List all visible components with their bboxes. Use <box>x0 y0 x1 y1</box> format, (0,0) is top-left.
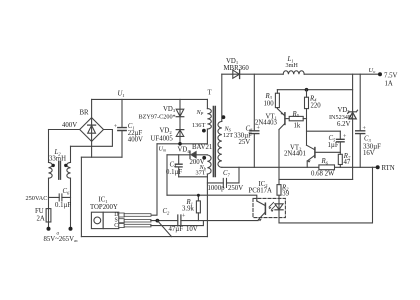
IC2 phototransistor collector <box>257 201 266 206</box>
svg-text:250VAC: 250VAC <box>26 195 48 202</box>
svg-text:33mH: 33mH <box>49 156 66 163</box>
svg-text:400V: 400V <box>128 136 143 143</box>
transformer primary winding Np 136T <box>207 109 211 129</box>
wire: R1 top lead <box>197 195 199 201</box>
IC1 pin S <box>119 219 124 223</box>
wire: VT1 collector vertical <box>278 130 280 180</box>
svg-text:39: 39 <box>282 191 289 198</box>
wire: primary ground horizontal under C1 <box>81 156 122 158</box>
svg-text:0.1µF: 0.1µF <box>55 202 71 209</box>
L2 core lines <box>59 162 61 180</box>
IC2 LED emission arrows <box>269 202 276 209</box>
zener VD5 symbol <box>349 112 356 119</box>
transistor VT1 base lead <box>285 118 289 120</box>
svg-text:1A: 1A <box>385 81 393 88</box>
wire: bridge left arm horizontal 400V <box>49 129 80 131</box>
wire: bridge top vertex to DC+ rail <box>91 99 93 117</box>
capacitor C7 plates <box>223 178 226 187</box>
wire: C6 branch horizontal <box>49 196 71 198</box>
svg-text:+: + <box>114 124 118 130</box>
wire: RTN rail <box>222 166 378 168</box>
capacitor C6 0.1uF plates <box>59 194 62 201</box>
svg-text:136T: 136T <box>192 122 205 129</box>
wire: C pin wire <box>151 221 204 226</box>
wire: R7 leads <box>339 152 341 167</box>
svg-text:BR: BR <box>80 110 90 117</box>
resistor R4 220 <box>305 97 309 108</box>
svg-text:UF4005: UF4005 <box>151 135 174 142</box>
wire: output rail L1 to Uo terminal <box>304 73 380 75</box>
wire: Um bias wire to optocoupler collector <box>167 195 257 201</box>
svg-text:220: 220 <box>311 103 322 110</box>
IC2 phototransistor emitter <box>258 212 265 220</box>
wire: feed line to R3 R4 top <box>277 89 352 91</box>
fuse FU 2A <box>46 209 51 222</box>
wire: bridge bottom vertex to primary ground <box>91 141 93 157</box>
capacitor C1 plates <box>118 128 126 131</box>
wire: bridge right arm to corner <box>71 130 113 147</box>
node: bias winding polarity dot <box>202 156 206 160</box>
wire: drain net horizontal <box>157 143 207 145</box>
resistor R6 0.68 2W <box>319 165 335 170</box>
svg-text:0.68 2W: 0.68 2W <box>311 170 335 177</box>
wire: R3 leads <box>276 90 278 109</box>
transistor VT1 2N4403 emitter <box>277 109 285 116</box>
diode VD2 UF4005 <box>176 129 184 131</box>
svg-text:1µF: 1µF <box>328 142 339 149</box>
wire: Um node left edge down <box>166 155 168 195</box>
wire: bias winding return down to ground rail <box>206 174 208 237</box>
IC2 LED <box>278 195 280 223</box>
node: R1 top junction dot <box>197 194 200 197</box>
svg-text:IN5234B: IN5234B <box>329 114 352 121</box>
svg-text:2N4401: 2N4401 <box>284 150 306 157</box>
svg-text:7.5V: 7.5V <box>384 72 397 79</box>
wire: R4 bottom to C5 top <box>307 130 341 132</box>
node: Uo output terminal dot <box>378 72 382 76</box>
svg-text:3mH: 3mH <box>286 62 299 69</box>
svg-text:TOP200Y: TOP200Y <box>90 204 118 211</box>
optocoupler IC2 PC817A dashed box <box>253 198 285 217</box>
svg-text:47: 47 <box>344 159 351 166</box>
capacitor C5 1uF leads <box>339 131 341 152</box>
node: AC input terminal dots <box>47 227 51 231</box>
svg-text:PC817A: PC817A <box>249 188 273 195</box>
wire: zener line below RTN to feedback node wire <box>352 167 354 179</box>
node: drain junction dot <box>178 142 182 146</box>
IC1 pin C <box>119 224 124 228</box>
svg-text:2N4403: 2N4403 <box>255 119 278 126</box>
svg-text:12T: 12T <box>223 132 233 139</box>
wire: primary ground bottom rail <box>81 236 207 238</box>
transformer core <box>213 107 215 177</box>
transformer secondary winding Ns 12T <box>218 121 222 167</box>
resistor R3 100 <box>275 93 279 107</box>
capacitor C4 plates <box>175 164 182 167</box>
wire: VT2 emitter down to RTN rail <box>306 161 308 167</box>
capacitor C4 0.1uF leads <box>178 155 180 177</box>
wire: fuse to AC terminal <box>48 222 50 229</box>
svg-text:RTN: RTN <box>382 165 395 172</box>
svg-text:85V~265Vac: 85V~265Vac <box>44 236 79 243</box>
wire: left line from C6 junction to fuse <box>48 197 50 208</box>
wire: AC left vertical from bridge left arm down to choke <box>48 130 50 163</box>
node: R4 top junction dot <box>305 88 309 92</box>
capacitor C1 22uF 400V leads <box>121 99 123 157</box>
resistor R1 3.9k <box>196 201 200 213</box>
diode VD3 BZY97-C200 <box>176 109 184 116</box>
wire: choke right bottom down to AC terminal <box>70 178 72 229</box>
capacitor C7 1000p wire <box>207 182 239 184</box>
transistor VT1 bar <box>284 113 286 125</box>
wire: secondary top lead <box>221 74 223 121</box>
wire: R2 top to feedback node <box>278 179 280 184</box>
wire: VT2 base to C5 R7 junction <box>315 151 340 153</box>
svg-text:1k: 1k <box>294 122 301 129</box>
diode VD1 MBR360 <box>233 70 240 78</box>
wire: feedback node horizontal to R6 right <box>279 178 353 180</box>
svg-text:10V: 10V <box>186 226 198 233</box>
transformer T primary top lead <box>206 99 208 108</box>
svg-text:FU: FU <box>35 208 44 215</box>
IC1 mounting hole <box>94 217 101 224</box>
transistor VT2 2N4401 collector <box>307 145 315 150</box>
transistor VT2 bar <box>314 148 316 158</box>
capacitor C5 plates <box>337 139 345 142</box>
svg-text:25V: 25V <box>239 139 251 146</box>
wire: bias box bottom <box>179 176 208 178</box>
IC1 pin D <box>119 213 124 217</box>
wire: choke left bottom to C6 junction <box>48 178 50 197</box>
wire: R1 bottom lead <box>197 213 199 221</box>
resistor R5 1k <box>289 116 303 120</box>
bridge rectifier BR diamond <box>80 118 104 142</box>
wire: bias box top (Um node) <box>167 154 207 156</box>
capacitor C3 330uF 16V leads <box>359 74 361 167</box>
node: choke polarity dots <box>52 164 55 167</box>
diode VD4 BAV21 <box>189 151 191 158</box>
capacitor C8 plates <box>250 131 259 134</box>
svg-text:100: 100 <box>264 100 275 107</box>
svg-text:0.1µF: 0.1µF <box>166 169 182 176</box>
transformer bias winding Nb 37T <box>207 155 211 174</box>
node: secondary polarity dot <box>222 115 226 119</box>
node: primary polarity dot <box>202 129 206 133</box>
svg-text:C: C <box>114 223 118 229</box>
wire: AC right vertical from corner down to choke <box>70 146 72 162</box>
svg-text:BZY97-C200*: BZY97-C200* <box>139 113 176 120</box>
svg-text:BAV21: BAV21 <box>192 144 212 151</box>
wire: S pin diagonal to ground rail <box>157 221 171 237</box>
IC1 TOP200Y package tab <box>91 212 103 228</box>
resistor R7 47 <box>338 154 342 164</box>
svg-text:400V: 400V <box>62 122 77 129</box>
svg-text:37T: 37T <box>196 169 206 176</box>
wire: LED cathode bottom run to RTN drop <box>279 167 373 223</box>
transistor VT1 collector <box>279 123 285 129</box>
svg-text:47µF: 47µF <box>169 226 184 233</box>
IC1 body <box>103 212 119 228</box>
capacitor C3 plates <box>356 131 365 134</box>
capacitor C8 330uF 25V leads <box>253 74 255 167</box>
wire: DC+ top rail U1 <box>92 98 208 100</box>
svg-text:250V: 250V <box>228 185 243 192</box>
node: RTN terminal dot <box>376 165 380 169</box>
BR inner diode <box>88 124 96 126</box>
inductor L2 common-mode choke left winding <box>49 162 53 178</box>
IC2 phototransistor bar <box>264 203 266 214</box>
svg-text:MBR360: MBR360 <box>224 65 250 72</box>
svg-text:2A: 2A <box>37 215 45 222</box>
svg-text:3.9k: 3.9k <box>182 205 194 212</box>
wire: output rail VD1 to L1 <box>240 73 284 75</box>
wire: control net from C2 to optocoupler emitter <box>181 220 258 222</box>
wire: C7 riser to RTN rail <box>238 167 240 183</box>
inductor L2 common-mode choke right winding <box>67 162 71 178</box>
clamp string vertical wire <box>179 99 181 143</box>
zener VD5 IN5234B vertical line <box>352 74 354 167</box>
wire: drain vertical down to D pin <box>151 144 157 215</box>
wire: S pin to C2 <box>151 220 178 222</box>
wire: primary bottom lead to drain net <box>206 129 208 144</box>
svg-text:1000p: 1000p <box>208 185 226 192</box>
node: S pin junction dot <box>156 219 160 223</box>
svg-text:6.2V: 6.2V <box>337 121 350 128</box>
wire: primary ground left drop <box>80 157 82 236</box>
wire: output rail from secondary to VD1 <box>222 73 240 75</box>
wire: R4 vertical <box>306 90 308 146</box>
inductor L1 3mH <box>283 71 304 74</box>
wire: R5 to R4 junction <box>303 118 306 120</box>
resistor R2 39 <box>277 185 281 196</box>
capacitor C2 47uF plates <box>178 215 181 226</box>
svg-text:16V: 16V <box>363 150 375 157</box>
transistor VT2 emitter <box>307 155 315 161</box>
